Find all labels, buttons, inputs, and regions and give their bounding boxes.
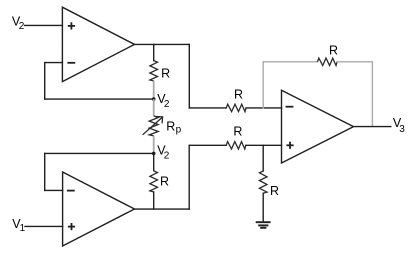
svg-text:R: R xyxy=(233,124,242,138)
wire (gray) Rp to node B xyxy=(153,136,155,154)
wire (gray) U3 feedback right vertical xyxy=(371,62,373,127)
svg-text:2: 2 xyxy=(19,21,25,32)
wire node B to R2 xyxy=(153,153,155,170)
svg-text:p: p xyxy=(176,125,182,136)
svg-text:R: R xyxy=(160,174,169,188)
wire vertical from U1 output down to R3 path xyxy=(188,44,190,108)
wire U2 feedback horizontal from node B xyxy=(45,152,154,154)
wire U1 feedback vertical xyxy=(44,63,46,100)
ground symbol xyxy=(256,222,271,228)
wire U2 feedback vertical xyxy=(44,153,46,190)
wire U3 output xyxy=(354,126,391,128)
wire vertical from U2 output up to R4 path xyxy=(188,145,190,209)
wire (gray) U3 feedback top right xyxy=(337,61,372,63)
potentiometer Rp xyxy=(143,116,163,136)
wire (gray) node A to Rp xyxy=(153,99,155,116)
wire R4 to U3 noninverting input xyxy=(246,144,282,146)
wire (gray) R1 to node A xyxy=(153,81,155,99)
wire V1 input to U2 + xyxy=(25,225,63,227)
svg-text:1: 1 xyxy=(20,223,26,234)
wire U1 output xyxy=(135,43,190,45)
svg-text:R: R xyxy=(329,43,338,57)
resistor R5 (to ground) xyxy=(259,171,267,193)
wire to R4 xyxy=(189,144,226,146)
resistor R4 (noninverting input) xyxy=(226,142,246,149)
wire chain top lead from U1 output xyxy=(153,44,155,60)
wire U2 output xyxy=(135,208,190,210)
svg-text:2: 2 xyxy=(164,99,170,110)
resistor R3 (inverting input) xyxy=(226,104,246,111)
resistor R2 (bottom of chain) xyxy=(150,171,158,192)
svg-text:2: 2 xyxy=(164,151,170,162)
svg-text:3: 3 xyxy=(399,124,405,135)
wire U1 inverting input stub xyxy=(45,62,63,64)
wire U1 feedback horizontal to node A xyxy=(45,98,154,100)
resistor R1 (top of chain) xyxy=(150,61,158,81)
svg-text:R: R xyxy=(161,67,170,81)
wire V2 input to U1 + xyxy=(25,24,63,26)
wire (gray) U3 feedback left vertical xyxy=(262,62,264,108)
op-amp U1 (top) xyxy=(62,7,134,81)
wire U2 inverting input stub xyxy=(45,189,63,191)
op-amp U2 (bottom) xyxy=(63,172,135,246)
svg-text:R: R xyxy=(234,88,243,102)
svg-text:R: R xyxy=(166,120,175,134)
wire R2 to U2 output wire xyxy=(153,192,155,209)
wire (gray) U3 feedback top left xyxy=(263,61,317,63)
wire to R3 xyxy=(189,107,226,109)
node A junction dot xyxy=(152,97,156,101)
resistor R6 (U3 feedback) xyxy=(317,58,337,65)
op-amp U3 (right) xyxy=(282,90,354,163)
node B junction dot xyxy=(152,152,156,156)
svg-text:R: R xyxy=(270,184,279,198)
wire ground branch vertical xyxy=(262,145,264,171)
wire R3 to U3 inverting input xyxy=(246,107,282,109)
wire R5 to ground xyxy=(262,193,264,222)
